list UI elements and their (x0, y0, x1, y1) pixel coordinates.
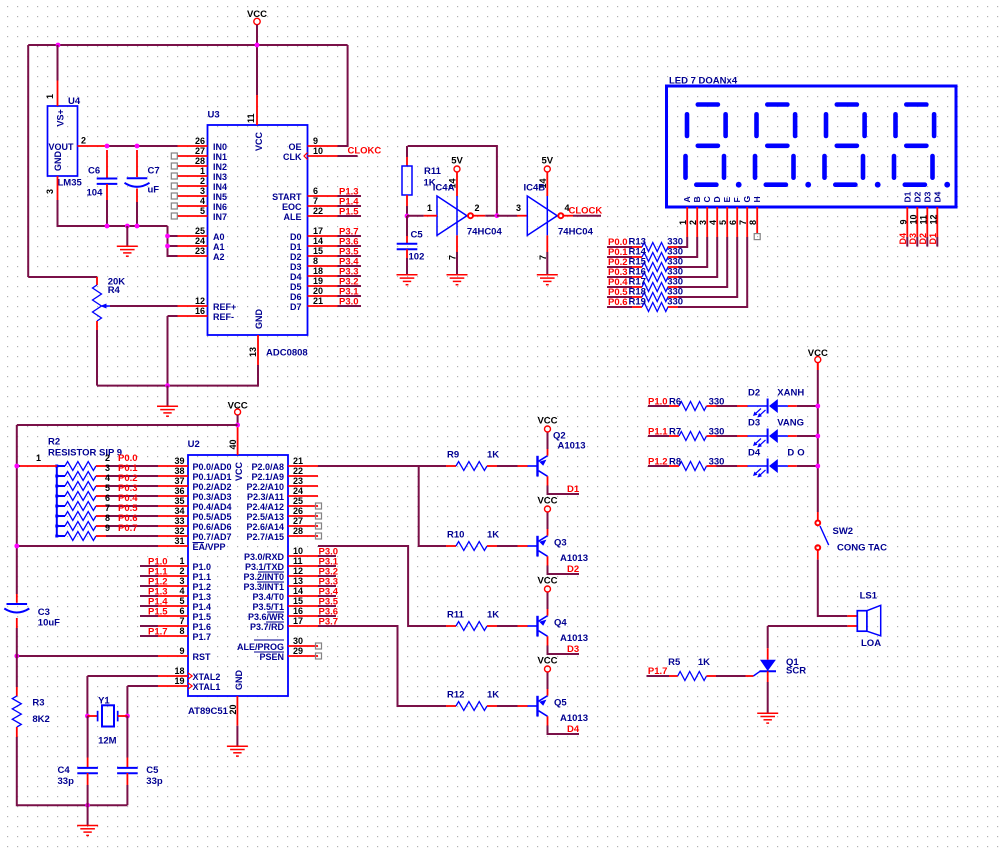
svg-text:D3: D3 (748, 418, 760, 429)
wire R2 to U2 (106, 505, 158, 507)
U4 pin 2 (VOUT) (78, 145, 108, 147)
svg-text:P1.7: P1.7 (648, 666, 668, 677)
svg-text:26: 26 (195, 136, 205, 146)
svg-text:LS1: LS1 (860, 591, 878, 602)
svg-text:5V: 5V (541, 156, 553, 167)
svg-text:17: 17 (293, 616, 303, 626)
svg-text:DO: DO (787, 448, 807, 459)
wire net stub P1.4 (338, 205, 362, 207)
svg-text:P2.7/A15: P2.7/A15 (246, 532, 284, 542)
svg-text:9: 9 (105, 523, 110, 533)
unconnected marker U2 pin 29 (316, 653, 322, 659)
svg-text:30: 30 (293, 636, 303, 646)
wire rail to R4 top (28, 276, 97, 278)
ground (under C5) (397, 275, 418, 285)
wire VCC symbol to pin 40 (237, 415, 239, 425)
svg-text:27: 27 (195, 146, 205, 156)
display pin 7 (G) (738, 196, 752, 238)
wire LED to VCC rail (797, 435, 818, 437)
svg-text:VCC: VCC (247, 9, 267, 20)
svg-text:IN5: IN5 (213, 192, 227, 202)
svg-text:8: 8 (748, 220, 758, 225)
wire C5/R11 node to IC4A input (407, 215, 424, 217)
wire display pin 11 stub (926, 237, 928, 247)
wire REF- left (168, 315, 178, 317)
svg-text:6: 6 (179, 606, 184, 616)
svg-text:A1013: A1013 (560, 553, 588, 564)
resistor R12 1K (446, 690, 499, 711)
wire collector net (548, 646, 580, 655)
junction (495, 213, 500, 218)
svg-text:A1: A1 (213, 242, 225, 252)
svg-text:1: 1 (678, 220, 688, 225)
svg-text:21: 21 (293, 456, 303, 466)
clock marker XTAL2 (188, 673, 192, 679)
svg-text:A1013: A1013 (560, 633, 588, 644)
U3 pin 12 (REF+) (178, 296, 237, 312)
wire crystal left to C4 (87, 716, 89, 758)
svg-text:P3.3/INT1: P3.3/INT1 (243, 582, 284, 592)
svg-text:6: 6 (313, 186, 318, 196)
svg-text:C5: C5 (411, 230, 424, 241)
U3 pin 11 (VCC) (256, 95, 258, 125)
wire to LED (717, 435, 738, 437)
U3 pin 3 (IN5) (178, 186, 228, 202)
wire rail to R2 pin1 (17, 465, 20, 467)
svg-text:REF+: REF+ (213, 302, 236, 312)
svg-text:D4: D4 (933, 191, 943, 202)
wire R2 to U2 (106, 485, 158, 487)
junction (405, 214, 410, 219)
U3 pin 10 (CLK) (283, 146, 338, 162)
potentiometer R4 20K (93, 277, 126, 331)
VCC power symbol (top, feeds U3 pin 11) (254, 18, 260, 24)
svg-text:AT89C51: AT89C51 (188, 706, 229, 717)
U2 pin 31 (EA/VPP) (158, 536, 226, 552)
svg-text:D1: D1 (567, 484, 580, 495)
junction (165, 244, 170, 249)
U2 pin 4 (P1.3) (158, 586, 211, 602)
IC4B input pin 3 (517, 215, 527, 217)
svg-text:B: B (692, 196, 702, 202)
svg-text:U2: U2 (188, 439, 200, 450)
unconnected marker U2 pin 30 (316, 643, 322, 649)
svg-text:7: 7 (738, 220, 748, 225)
svg-text:19: 19 (174, 676, 184, 686)
wire to SCR anode (767, 626, 769, 648)
wire net stub (140, 595, 158, 597)
wire net P0.6 to R19 (607, 306, 632, 308)
U3 pin 23 (A2) (178, 246, 225, 262)
U2 pin 27 (P2.6/A14) (246, 516, 318, 532)
wire net stub P3.1 (338, 295, 362, 297)
wire to bottom ground (87, 805, 89, 825)
U3 pin 19 (D5) (290, 276, 338, 292)
wire R2 to U2 (106, 535, 158, 537)
IC4B power pin 14 and ground pin 7 (538, 172, 548, 274)
svg-text:VCC: VCC (537, 656, 557, 667)
U2 pin 35 (P0.4/AD4) (158, 496, 232, 512)
svg-text:12: 12 (928, 214, 938, 224)
U2 pin 6 (P1.5) (158, 606, 211, 622)
svg-text:4: 4 (179, 586, 184, 596)
U4 pin 1 (VS+) (57, 81, 59, 107)
U3 pin 8 (D3) (290, 256, 338, 272)
svg-text:35: 35 (174, 496, 184, 506)
capacitor C5 33p (117, 758, 163, 806)
junction (815, 434, 820, 439)
svg-text:P2.6/A14: P2.6/A14 (246, 522, 284, 532)
svg-text:7: 7 (313, 196, 318, 206)
wire R19 to display pin 7 (678, 237, 747, 307)
U3 pin 26 (IN0) (178, 136, 228, 152)
svg-text:15: 15 (313, 246, 323, 256)
junction (14, 654, 19, 659)
display pin 9 (D1) (898, 191, 912, 237)
svg-text:R2: R2 (48, 437, 60, 448)
svg-text:2: 2 (475, 203, 480, 213)
resistor R11 1K (oscillator, box style) (402, 146, 442, 216)
svg-text:P0.4/AD4: P0.4/AD4 (193, 502, 232, 512)
svg-text:C5: C5 (146, 765, 159, 776)
resistor R9 1K (446, 450, 499, 471)
wire R2 to U2 (106, 475, 158, 477)
resistor R13 330 (629, 237, 684, 252)
wire R16 to display pin 4 (678, 237, 717, 277)
svg-text:8: 8 (313, 256, 318, 266)
U2 pin 24 (P2.3/A11) (247, 486, 318, 502)
svg-text:IN6: IN6 (213, 202, 227, 212)
microcontroller U2 AT89C51 body (188, 439, 288, 717)
transistor Q4 A1013 (528, 609, 589, 646)
wire net stub P3.4 (338, 265, 362, 267)
svg-text:P1.3: P1.3 (193, 592, 212, 602)
svg-text:C3: C3 (38, 607, 50, 618)
wire U2 to R12 (318, 626, 446, 706)
svg-text:12M: 12M (98, 736, 117, 747)
svg-text:P0.7: P0.7 (118, 523, 138, 534)
U3 pin 14 (D1) (290, 236, 338, 252)
wire to base (497, 545, 518, 547)
wire U2 P2.0 to R9 (318, 465, 446, 467)
svg-text:P0.2/AD2: P0.2/AD2 (193, 482, 232, 492)
svg-text:102: 102 (409, 252, 425, 263)
svg-text:P2.3/A11: P2.3/A11 (247, 492, 284, 502)
resistor R16 330 (629, 267, 684, 282)
svg-text:8K2: 8K2 (32, 714, 49, 725)
unconnected marker U3 pin 3 (171, 193, 177, 199)
voltage sensor U4 LM35 (48, 96, 83, 189)
svg-text:D3: D3 (923, 191, 933, 202)
svg-text:11: 11 (246, 113, 256, 123)
svg-text:33: 33 (174, 516, 184, 526)
svg-text:IN4: IN4 (213, 182, 227, 192)
U2 pin 40 (VCC) (237, 425, 239, 455)
underline WR (266, 621, 284, 623)
svg-text:5: 5 (179, 596, 184, 606)
svg-text:OE: OE (288, 142, 301, 152)
svg-text:1: 1 (427, 203, 432, 213)
wire VCC to pullup rail (17, 424, 238, 426)
svg-text:SW2: SW2 (833, 526, 854, 537)
svg-text:104: 104 (87, 188, 104, 199)
U3 pin 5 (IN7) (178, 206, 228, 222)
wire CLOCK net stub (573, 215, 601, 217)
resistor R19 330 (629, 297, 684, 312)
U2 pin 18 (XTAL2) (158, 666, 220, 682)
svg-text:18: 18 (174, 666, 184, 676)
wire to base (497, 625, 518, 627)
wire rail to EA/VPP (17, 545, 158, 547)
U2 pin 21 (P2.0/A8) (251, 456, 318, 472)
svg-text:39: 39 (174, 456, 184, 466)
svg-text:1K: 1K (487, 610, 499, 621)
wire R4 bottom to ground bus (96, 330, 98, 386)
junction (85, 714, 90, 719)
wire net stub (140, 565, 158, 567)
svg-text:18: 18 (313, 266, 323, 276)
svg-text:1: 1 (36, 453, 41, 463)
junction (135, 144, 140, 149)
svg-text:20: 20 (228, 704, 238, 714)
U2 pin 13 (P3.3/INT1) (243, 576, 318, 592)
junction (815, 464, 820, 469)
svg-text:11: 11 (918, 215, 928, 225)
svg-text:R11: R11 (447, 610, 465, 621)
svg-text:5V: 5V (451, 156, 463, 167)
U2 pin 17 (P3.7/RD) (250, 616, 318, 632)
svg-text:14: 14 (313, 236, 323, 246)
svg-text:33p: 33p (146, 776, 163, 787)
svg-text:12: 12 (195, 296, 205, 306)
svg-text:P1.1: P1.1 (193, 572, 212, 582)
svg-text:Q4: Q4 (554, 618, 567, 629)
wire net stub (318, 595, 336, 597)
svg-text:IN3: IN3 (213, 172, 227, 182)
U3 pin 16 (REF-) (178, 306, 235, 322)
svg-text:SCR: SCR (786, 666, 806, 677)
svg-text:24: 24 (195, 236, 205, 246)
Q4 base pin (518, 625, 528, 627)
7-segment digit 2 (755, 105, 795, 185)
wire net stub P3.3 (338, 275, 362, 277)
svg-text:74HC04: 74HC04 (467, 227, 503, 238)
svg-text:P3.2/INT0: P3.2/INT0 (243, 572, 284, 582)
wire net stub P1.3 (338, 195, 362, 197)
junction (165, 234, 170, 239)
svg-text:D2: D2 (918, 233, 928, 245)
wire display pin 12 stub (936, 237, 938, 247)
ground (under IC4A) (447, 275, 468, 285)
svg-text:R6: R6 (669, 397, 681, 408)
U2 pin 22 (P2.1/A9) (251, 466, 318, 482)
svg-text:21: 21 (313, 296, 323, 306)
svg-text:4: 4 (708, 220, 718, 225)
wire net stub (318, 555, 336, 557)
unconnected marker U2 pin 28 (316, 533, 322, 539)
svg-text:P1.0: P1.0 (193, 562, 212, 572)
wire U4 pin3 to ground bus (58, 200, 168, 226)
wire net P0.3 to R16 (607, 276, 632, 278)
svg-text:5: 5 (105, 483, 110, 493)
svg-text:G: G (742, 196, 752, 203)
U2 pin 26 (P2.5/A13) (246, 506, 318, 522)
svg-text:10uF: 10uF (38, 618, 60, 629)
svg-text:7: 7 (448, 255, 458, 260)
unconnected marker U3 pin 2 (171, 183, 177, 189)
svg-text:22: 22 (293, 466, 303, 476)
wire collector net (548, 486, 580, 495)
junction (165, 383, 170, 388)
U2 pin 32 (P0.7/AD7) (158, 526, 232, 542)
wire OE to VCC rail (338, 45, 348, 146)
svg-text:15: 15 (293, 596, 303, 606)
U2 pin 36 (P0.3/AD3) (158, 486, 232, 502)
U2 pin 25 (P2.4/A12) (246, 496, 318, 512)
wire collector net (548, 566, 580, 575)
svg-text:8: 8 (105, 513, 110, 523)
overline for EA pin name (193, 542, 205, 544)
IC4B output pin 4 (563, 215, 573, 217)
svg-text:330: 330 (667, 297, 683, 308)
resistor R8 330 (669, 457, 724, 471)
wire VCC symbol to U3 pin 11 (256, 25, 258, 95)
VCC power symbol at Q2 (537, 416, 557, 433)
overline PROG (254, 639, 284, 641)
svg-text:Q5: Q5 (554, 698, 567, 709)
svg-text:P1.1: P1.1 (648, 427, 668, 438)
svg-text:XTAL2: XTAL2 (193, 672, 221, 682)
wire net P0.1 to R14 (607, 256, 632, 258)
resistor R7 330 (669, 427, 724, 441)
svg-text:VANG: VANG (777, 418, 804, 429)
svg-text:D1: D1 (903, 191, 913, 202)
junction (815, 404, 820, 409)
ground (analog input filter) (117, 246, 138, 256)
display pin 5 (E) (718, 197, 732, 238)
svg-text:9: 9 (179, 646, 184, 656)
svg-text:RESISTOR SIP 9: RESISTOR SIP 9 (48, 448, 122, 459)
svg-text:23: 23 (293, 476, 303, 486)
Q3 base pin (518, 545, 528, 547)
svg-text:38: 38 (174, 466, 184, 476)
svg-text:P3.5/T1: P3.5/T1 (252, 602, 284, 612)
svg-text:ALE/PROG: ALE/PROG (237, 642, 284, 652)
wire net P1.1 (648, 435, 669, 437)
wire speaker return (768, 625, 848, 627)
svg-text:A: A (682, 196, 692, 202)
svg-text:1: 1 (179, 556, 184, 566)
svg-text:U4: U4 (68, 96, 81, 107)
svg-text:29: 29 (293, 646, 303, 656)
svg-text:27: 27 (293, 516, 303, 526)
wire U2 to R11 (318, 546, 446, 626)
svg-text:P1.2: P1.2 (193, 582, 212, 592)
svg-text:D1: D1 (290, 242, 302, 252)
svg-text:P1.2: P1.2 (648, 457, 668, 468)
LED D4 DO (737, 448, 797, 478)
svg-text:R3: R3 (32, 698, 44, 709)
wire VCC rail down to switch (817, 363, 819, 370)
svg-text:RST: RST (193, 652, 212, 662)
wire net P0.2 to R15 (607, 266, 632, 268)
U2 pin 1 (P1.0) (158, 556, 211, 572)
svg-text:C: C (702, 196, 712, 202)
wire XTAL1 net (127, 685, 158, 687)
svg-text:GND: GND (234, 670, 244, 691)
svg-text:XANH: XANH (777, 388, 804, 399)
svg-text:D3: D3 (908, 233, 918, 245)
wire net P0.5 to R18 (607, 296, 632, 298)
svg-text:1K: 1K (487, 690, 499, 701)
junction (125, 714, 130, 719)
svg-text:6: 6 (728, 220, 738, 225)
capacitor C3 10uF (4, 594, 60, 629)
node VOUT wire to U3 IN0 (107, 145, 178, 147)
U2 pin 7 (P1.6) (158, 616, 211, 632)
underline INT0 (257, 581, 284, 583)
wire net stub (318, 605, 336, 607)
wire to A0 (168, 235, 178, 237)
capacitor C7 (polarized) (125, 150, 160, 226)
resistor R10 1K (446, 530, 499, 551)
ground (under U2) (227, 746, 248, 756)
U3 pin 13 (GND) (257, 335, 259, 365)
svg-text:25: 25 (293, 496, 303, 506)
svg-text:CONG TAC: CONG TAC (837, 543, 887, 554)
svg-text:3: 3 (200, 186, 205, 196)
svg-text:uF: uF (148, 185, 160, 196)
svg-text:34: 34 (174, 506, 184, 516)
wire net stub (140, 625, 158, 627)
svg-text:VCC: VCC (254, 131, 264, 151)
svg-text:9: 9 (313, 136, 318, 146)
svg-text:EA/VPP: EA/VPP (193, 542, 226, 552)
svg-text:2: 2 (688, 220, 698, 225)
wire U3 GND to ground bus (97, 365, 258, 386)
wire emitter to VCC (547, 672, 549, 689)
IC4A output pin 2 (473, 215, 485, 217)
svg-text:8: 8 (179, 626, 184, 636)
U3 pin 21 (D7) (290, 296, 338, 312)
wire R2 to U2 (106, 525, 158, 527)
svg-text:D6: D6 (290, 292, 302, 302)
svg-text:3: 3 (105, 463, 110, 473)
svg-text:P3.4/T0: P3.4/T0 (252, 592, 284, 602)
wire R18 to display pin 6 (678, 237, 737, 297)
svg-text:R11: R11 (424, 166, 442, 177)
wire net P0.4 to R17 (607, 286, 632, 288)
junction (105, 144, 110, 149)
display LED 7 DOANx4 body (667, 76, 957, 208)
wire C3 to R3 (16, 628, 18, 687)
svg-text:7: 7 (179, 616, 184, 626)
svg-text:D2: D2 (290, 252, 302, 262)
svg-text:P3.1/TXD: P3.1/TXD (245, 562, 285, 572)
junction (14, 544, 19, 549)
svg-text:LM35: LM35 (58, 178, 83, 189)
svg-text:EOC: EOC (282, 202, 302, 212)
resistor R3 8K2 (12, 687, 50, 737)
svg-text:P2.4/A12: P2.4/A12 (246, 502, 284, 512)
junction (255, 43, 260, 48)
U2 pin 12 (P3.2/INT0) (243, 566, 318, 582)
svg-text:26: 26 (293, 506, 303, 516)
U3 pin 7 (EOC) (282, 196, 338, 212)
wire emitter to VCC (547, 512, 549, 529)
wire to IC4B input (497, 215, 517, 217)
svg-text:Q3: Q3 (554, 538, 567, 549)
